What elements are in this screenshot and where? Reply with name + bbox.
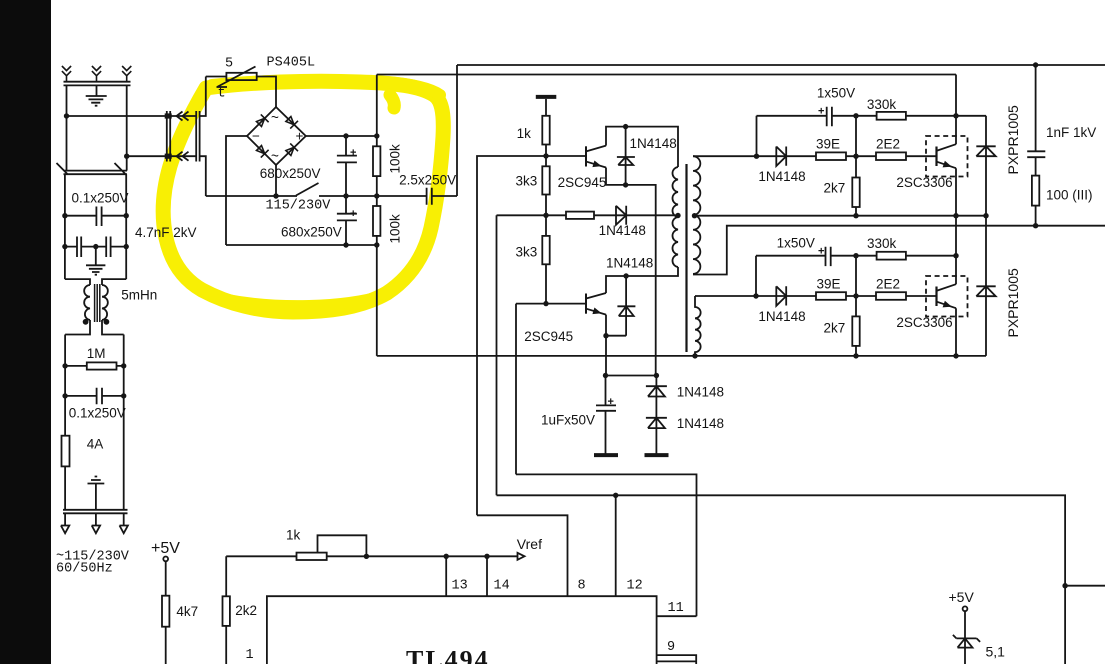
svg-text:+5V: +5V — [151, 540, 180, 557]
svg-text:4.7nF 2kV: 4.7nF 2kV — [135, 225, 197, 240]
svg-text:1k: 1k — [517, 126, 532, 141]
svg-text:+: + — [296, 129, 304, 144]
wire: Q1 collector loop y126.6 — [606, 127, 678, 167]
resistor 1M — [65, 365, 124, 367]
wire: Q3 collector up / emitter down (x956 vertical) — [955, 75, 957, 256]
svg-text:11: 11 — [668, 601, 684, 616]
terminal +5V (left) — [163, 557, 168, 562]
resistor 330k upper — [877, 112, 906, 120]
svg-text:5mHn: 5mHn — [121, 288, 157, 303]
wire: pin14 stub — [486, 556, 488, 596]
EMI filter shield top (double line with end ticks) — [57, 163, 128, 175]
plug/socket pair bars — [167, 111, 200, 162]
diode D PXPR1005 (upper) — [976, 116, 995, 216]
junctions driver column x546 — [543, 153, 548, 158]
wire: node A down to filter box — [66, 116, 68, 171]
wire: x496.5 vertical — [496, 215, 498, 495]
svg-text:0.1x250V: 0.1x250V — [72, 191, 129, 206]
junction upper stage x756 — [754, 154, 759, 159]
transistor Q4 2SC3306 (lower) — [935, 287, 937, 307]
svg-text:+5V: +5V — [949, 589, 975, 605]
svg-text:100k: 100k — [388, 214, 403, 244]
yellow highlighter loop around bridge rectifier section — [163, 80, 443, 312]
resistor 1k — [542, 116, 549, 145]
svg-text:+: + — [350, 147, 356, 159]
base row y156.2 upper: winding top lead — [693, 155, 816, 157]
choke L1 5mHn windings — [84, 285, 108, 320]
switch blade 115/230V — [296, 183, 319, 196]
svg-text:1nF 1kV: 1nF 1kV — [1046, 125, 1096, 140]
wire: Q2 emitter row y335.7 — [606, 315, 626, 376]
transistor Q2 2SC945 (lower driver) — [585, 294, 587, 314]
svg-text:2SC3306: 2SC3306 — [896, 175, 952, 190]
junction node A — [64, 113, 69, 118]
capacitor Y pair 4.7nF 2kV row — [65, 237, 126, 258]
svg-text:t: t — [218, 87, 226, 102]
EMI filter box side walls — [65, 174, 126, 279]
bridge diode bottom-right — [286, 143, 298, 155]
transformer T1 secondary lower winding — [695, 296, 701, 356]
svg-text:TL494: TL494 — [406, 646, 490, 664]
svg-text:680x250V: 680x250V — [260, 166, 321, 181]
base row y215 with resistor and diode 1N4148 — [497, 214, 679, 216]
junctions 0.1 row — [62, 393, 67, 398]
diode D 1N4148 (lower right) — [776, 286, 786, 306]
bus vertical x457 — [456, 65, 458, 196]
resistor 2E2 upper — [876, 152, 906, 160]
wire: base row y156 left to x477 — [477, 156, 546, 515]
svg-text:680x250V: 680x250V — [281, 224, 342, 239]
wire 2E2 to Q3 base — [906, 155, 936, 157]
wire 2E2 to Q4 base — [906, 295, 936, 297]
diode D 1N4148 (upper mid) — [617, 127, 635, 185]
wire: secondary bottom lead to rail y225.7 — [693, 226, 1105, 275]
svg-text:4k7: 4k7 — [176, 604, 198, 619]
svg-text:100 (III): 100 (III) — [1046, 187, 1093, 202]
wire: Q1 emitter row y184.9 — [606, 168, 656, 376]
wire: pin13 stub — [445, 556, 447, 596]
zener diode 5,1 — [953, 611, 980, 664]
svg-text:2k2: 2k2 — [235, 603, 257, 618]
svg-text:−: − — [252, 129, 260, 144]
wire: x856 vertical + resistor 2k7 upper — [855, 116, 857, 216]
svg-text:1x50V: 1x50V — [777, 235, 815, 250]
supply bar terminal (thick) — [536, 95, 557, 99]
diode chain D 1N4148 x2 — [646, 376, 667, 454]
fuse 4A — [62, 436, 70, 467]
dashed box around Q3 — [926, 136, 968, 177]
svg-text:2.5x250V: 2.5x250V — [399, 172, 456, 187]
svg-text:60/50Hz: 60/50Hz — [56, 562, 113, 577]
junction pin12 — [613, 493, 618, 498]
diode D 1N4148 (lower mid) — [617, 276, 635, 336]
capacitor C 680x250V upper — [337, 136, 357, 196]
junctions x856 column upper — [853, 113, 858, 118]
resistor 3k3 upper — [542, 166, 549, 194]
capacitor 0.1x250V (lower) — [65, 388, 124, 405]
lower output stage: cap row y255.7 — [756, 256, 856, 296]
svg-text:4A: 4A — [87, 436, 104, 451]
svg-text:2SC945: 2SC945 — [558, 175, 607, 190]
wire: 1k to base node — [545, 145, 547, 157]
AC input connector J1 bar (double line) — [64, 82, 131, 86]
earth ground symbol (inverted, bottom) — [88, 477, 105, 510]
bridge diode bottom-left — [257, 146, 269, 158]
svg-text:~: ~ — [271, 110, 279, 125]
junction lower emitter row — [603, 333, 608, 338]
svg-text:1uFx50V: 1uFx50V — [541, 413, 595, 428]
svg-text:0.1x250V: 0.1x250V — [69, 406, 126, 421]
junction lower stage x756 — [753, 293, 758, 298]
svg-text:14: 14 — [494, 579, 510, 594]
wire: Q4 collector up / emitter down — [955, 256, 957, 356]
capacitor C 680x250V lower — [337, 196, 357, 245]
wires: choke to lower box — [65, 320, 124, 335]
output connector bar (double line) — [63, 510, 128, 514]
choke core lines — [95, 284, 100, 322]
svg-text:1N4148: 1N4148 — [758, 169, 805, 184]
svg-text:3k3: 3k3 — [516, 174, 538, 189]
capacitor 1x50V upper — [827, 107, 832, 126]
svg-text:1N4148: 1N4148 — [677, 384, 724, 399]
capacitor 1nF 1kV — [1027, 151, 1045, 157]
junctions upper driver diode — [623, 124, 628, 129]
capacitor 1x50V lower — [826, 247, 831, 266]
resistor 330k lower — [877, 252, 906, 260]
junctions tap row — [675, 213, 680, 218]
bridge rectifier B1 diamond — [247, 107, 306, 165]
resistor 39E upper — [816, 152, 846, 160]
HV plus rail y136 — [306, 135, 377, 137]
choke phase dots — [83, 319, 89, 325]
mid rail y196 (115/230V row) — [206, 195, 457, 197]
plug arrows (chevrons) bottom row — [177, 152, 189, 161]
svg-text:2SC945: 2SC945 — [524, 329, 573, 344]
svg-text:2k7: 2k7 — [824, 320, 846, 335]
wire: neutral pin down through to node — [126, 85, 128, 156]
upper output stage: cap row y115.8 — [757, 116, 857, 156]
wire: thermistor right lead to bridge top — [257, 77, 276, 108]
capacitor 1uFx50V — [596, 376, 616, 454]
base row y296 lower: winding top lead — [695, 295, 816, 297]
svg-text:39E: 39E — [816, 137, 840, 152]
resistor 100 (III) — [1032, 176, 1039, 206]
wire: node A to plug, row y116 — [67, 77, 206, 117]
resistor 2k2 — [225, 556, 227, 664]
junction lower winding bottom — [692, 353, 697, 358]
svg-text:1x50V: 1x50V — [817, 85, 855, 100]
plug pin nubs — [166, 114, 171, 117]
junction secondary centre tap — [692, 213, 697, 218]
svg-text:12: 12 — [627, 579, 643, 594]
svg-text:PS405L: PS405L — [267, 56, 316, 71]
ground bar (cap) — [594, 453, 618, 457]
svg-text:1N4148: 1N4148 — [758, 309, 805, 324]
wire: node B to plug, row y156 — [127, 156, 206, 196]
wire: Q2 collector loop y276 — [606, 267, 678, 293]
pin 11 stub — [657, 615, 697, 617]
resistor 100k upper — [373, 146, 380, 176]
resistor 39E lower — [816, 292, 846, 300]
transformer core — [685, 164, 687, 352]
terminal +5V (right) — [963, 606, 968, 611]
trimmer 1k (pot) — [297, 553, 327, 560]
svg-text:1N4148: 1N4148 — [677, 416, 724, 431]
svg-text:+: + — [350, 208, 356, 220]
transformer T1 secondary upper winding — [693, 156, 700, 274]
HV bus vertical x377 — [376, 75, 378, 356]
svg-text:1k: 1k — [286, 528, 301, 543]
Vref arrow — [487, 553, 525, 560]
wire: thermistor left lead — [206, 76, 227, 78]
plug arrows (chevrons) top row — [177, 112, 189, 121]
emitter rail y215.8 right side — [695, 215, 987, 217]
resistor 2E2 lower — [876, 292, 906, 300]
junctions 1M row — [62, 363, 67, 368]
earth ground symbol (filter mid) — [86, 247, 105, 275]
wire: pin12 stub — [615, 495, 617, 596]
pin 9 stub — [657, 655, 697, 664]
transistor Q1 2SC945 (upper driver) — [585, 146, 587, 166]
branch: 1nF/100 snubber vertical x1035.6 — [1035, 65, 1037, 226]
svg-text:Vref: Vref — [517, 536, 542, 552]
svg-text:2k7: 2k7 — [824, 180, 846, 195]
row y474.4 to pin 11 — [516, 474, 697, 616]
junctions x956 column — [953, 113, 958, 118]
svg-text:~: ~ — [271, 149, 279, 164]
svg-text:PXPR1005: PXPR1005 — [1005, 105, 1021, 174]
bridge diode top-right — [286, 117, 298, 129]
wires: filter box bottom to choke — [65, 279, 126, 285]
row y515.3 to pin 8 — [477, 515, 568, 596]
svg-text:13: 13 — [452, 579, 468, 594]
diode D 1N4148 (upper right) — [776, 147, 786, 167]
thermistor R 5 / PS405L — [226, 73, 256, 80]
svg-text:39E: 39E — [817, 277, 841, 292]
resistor 100k lower — [373, 206, 380, 236]
wire: node B down to filter box — [126, 156, 128, 170]
junctions x856 column lower — [853, 253, 858, 258]
svg-text:9: 9 — [667, 640, 675, 655]
svg-text:1N4148: 1N4148 — [630, 136, 677, 151]
bottom rail y356 of converter — [377, 355, 986, 357]
transistor Q3 2SC3306 (upper) — [935, 147, 937, 167]
row y495.3 to right column — [497, 495, 1066, 664]
wire: Q2 base row y303.6 — [516, 304, 585, 475]
junction +5V branch — [1062, 583, 1067, 588]
svg-text:1M: 1M — [87, 346, 106, 361]
junctions filter cap row 1 — [62, 213, 67, 218]
svg-text:100k: 100k — [388, 144, 403, 174]
svg-text:330k: 330k — [867, 97, 897, 112]
ground bar (diode chain) — [645, 453, 669, 457]
svg-text:8: 8 — [578, 579, 586, 594]
bottom rail y245 — [226, 244, 377, 246]
earth ground symbol (top, PE pin) — [86, 85, 107, 105]
svg-text:3k3: 3k3 — [516, 244, 538, 259]
transformer T1 primary winding — [672, 167, 678, 267]
junction x986 emitter rail — [983, 213, 988, 218]
black film edge bar — [0, 0, 51, 664]
svg-text:5: 5 — [225, 57, 233, 72]
svg-text:330k: 330k — [867, 236, 897, 251]
junctions pot row — [364, 554, 369, 559]
second bus y74.5 — [377, 74, 956, 76]
svg-text:PXPR1005: PXPR1005 — [1005, 268, 1021, 337]
svg-text:2E2: 2E2 — [876, 277, 900, 292]
svg-text:+: + — [818, 106, 824, 118]
bridge diode top-left — [257, 114, 269, 126]
resistor 4k7 — [162, 596, 169, 627]
TL494 IC box outline — [267, 596, 657, 664]
capacitor X 0.1x250V (top row) — [65, 207, 126, 227]
junctions snubber column — [1033, 62, 1038, 67]
diode D PXPR1005 (lower) — [976, 216, 995, 356]
junctions filter cap row 2 — [62, 244, 67, 249]
junctions row y375.5 — [603, 373, 608, 378]
output connector arrows (3 open triangles) — [61, 513, 128, 533]
junction lower driver diode top — [623, 273, 628, 278]
wire 39E to 2E2 — [846, 155, 876, 157]
svg-text:+: + — [608, 396, 614, 408]
lower box side walls — [65, 335, 124, 510]
wire 39E to 2E2 lower — [846, 295, 876, 297]
svg-text:2E2: 2E2 — [876, 137, 900, 152]
svg-text:+: + — [818, 245, 824, 257]
capacitor 2.5x250V — [427, 188, 432, 205]
top bus y65 — [457, 64, 1105, 66]
svg-text:1N4148: 1N4148 — [599, 223, 646, 238]
svg-text:2SC3306: 2SC3306 — [896, 315, 952, 330]
wire: bar to 1k — [545, 99, 547, 116]
pot row y556.3 — [226, 555, 487, 557]
AC input connector J1 pin arrows (3 double chevrons) — [62, 66, 71, 82]
svg-text:5,1: 5,1 — [986, 643, 1006, 659]
wire: base node to Q1 base — [546, 155, 585, 157]
wire: live pin down to node — [66, 85, 68, 116]
row y375.5 cap/diode chain top — [606, 375, 657, 377]
svg-text:115/230V: 115/230V — [266, 199, 332, 214]
junctions HV rails — [343, 133, 348, 138]
wire: bridge bottom to rail — [275, 165, 277, 196]
resistor 3k3 lower — [542, 236, 549, 264]
wire: x856 vertical + resistor 2k7 lower — [855, 256, 857, 356]
svg-text:1: 1 — [246, 648, 254, 663]
dashed box around Q4 — [926, 276, 968, 317]
wire: bridge minus to left rail down — [226, 136, 247, 245]
junction bridge bottom — [273, 193, 278, 198]
wire: +5V branch right bottom — [1065, 585, 1105, 587]
junction node B — [124, 154, 129, 159]
svg-text:1N4148: 1N4148 — [606, 255, 653, 270]
